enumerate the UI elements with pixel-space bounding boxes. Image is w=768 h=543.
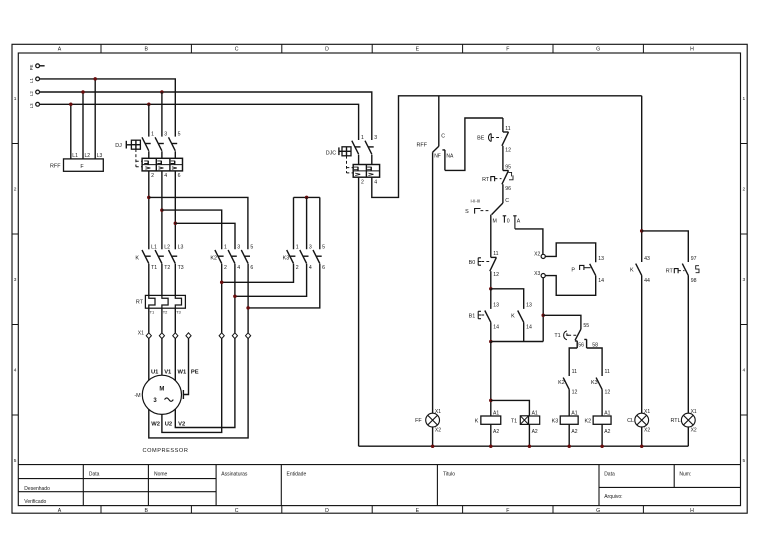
svg-text:DJC: DJC bbox=[326, 150, 337, 156]
svg-text:L2: L2 bbox=[29, 91, 34, 96]
svg-text:1: 1 bbox=[151, 131, 154, 137]
aux contact K 13-14 (seal-in) bbox=[518, 311, 524, 323]
contactor K pole L3-T3 bbox=[169, 250, 176, 264]
pushbutton B0 actuator bbox=[478, 258, 481, 265]
svg-text:C: C bbox=[235, 508, 239, 514]
svg-text:1: 1 bbox=[742, 96, 745, 102]
wire X1 to motor V1 bbox=[161, 339, 163, 376]
wire DJC pole4 riser to control top rail bbox=[372, 96, 642, 198]
wire phase rail 3 bbox=[40, 104, 359, 140]
svg-text:B: B bbox=[144, 508, 148, 514]
svg-text:X1: X1 bbox=[644, 409, 650, 415]
wire RT98 to RTL lamp bbox=[687, 275, 689, 413]
contactor K pole L1-T1 bbox=[142, 250, 149, 264]
svg-text:Nome: Nome bbox=[154, 472, 168, 478]
svg-text:K2: K2 bbox=[558, 380, 565, 386]
pushbutton B1 NO contact 13-14 bbox=[485, 311, 491, 323]
wire fuse drop L1 bbox=[70, 104, 72, 159]
junction rail3-L1 bbox=[69, 103, 73, 107]
terminal PE (incoming earth) bbox=[36, 64, 40, 68]
coil K2 bbox=[593, 416, 611, 424]
pushbutton B0 NC contact 11-12 bbox=[491, 256, 497, 258]
terminal L3 (incoming phase) bbox=[36, 102, 40, 106]
wire RT outputs to X1 terminals bbox=[149, 308, 176, 333]
svg-text:K3: K3 bbox=[283, 256, 290, 262]
svg-text:T3: T3 bbox=[178, 265, 184, 271]
wire branch to K2 pole 5 bbox=[149, 197, 248, 249]
breaker DJ trip linkage (dashed) bbox=[135, 149, 137, 167]
svg-text:Arquivo:: Arquivo: bbox=[604, 494, 622, 500]
svg-text:RT: RT bbox=[136, 300, 144, 306]
svg-text:B0: B0 bbox=[469, 260, 476, 266]
frame zone column dividers (top strip) bbox=[101, 44, 643, 53]
wire top rail down right branch bbox=[641, 96, 643, 262]
junction node DJ pole3 branch bbox=[174, 222, 178, 226]
terminal X1 point 3 bbox=[173, 333, 178, 339]
pushbutton B1 actuator bbox=[478, 311, 481, 318]
svg-text:Data: Data bbox=[604, 472, 615, 478]
svg-text:A1: A1 bbox=[571, 410, 577, 416]
svg-text:X1: X1 bbox=[138, 331, 144, 337]
svg-text:1: 1 bbox=[14, 96, 17, 102]
svg-text:A2: A2 bbox=[532, 429, 538, 435]
svg-text:H: H bbox=[690, 47, 694, 53]
svg-text:FF: FF bbox=[415, 418, 422, 424]
svg-text:A1: A1 bbox=[604, 410, 610, 416]
svg-text:L1: L1 bbox=[151, 245, 157, 251]
drawing frame inner border bbox=[18, 53, 740, 506]
svg-text:1: 1 bbox=[361, 135, 364, 141]
svg-text:12: 12 bbox=[572, 389, 578, 395]
breaker DJ trip elements pole 1 bbox=[144, 161, 148, 164]
svg-text:X1: X1 bbox=[691, 409, 697, 415]
svg-text:1: 1 bbox=[296, 245, 299, 251]
svg-text:NF: NF bbox=[434, 154, 441, 160]
terminal X3 bbox=[541, 274, 545, 278]
wire B0 to start branch bbox=[490, 271, 492, 289]
wire X3 down to manual branch junction bbox=[542, 278, 544, 342]
wire DJ pole2 to contactor K pole2 bbox=[161, 171, 163, 249]
svg-text:12: 12 bbox=[605, 389, 611, 395]
junction rail2-L2 bbox=[81, 90, 85, 94]
svg-text:4: 4 bbox=[14, 368, 17, 374]
frame zone row dividers (left+right strips) bbox=[12, 144, 747, 416]
contactor K2 pole 5-6 bbox=[241, 250, 248, 264]
junction node K2-K3 phase b bbox=[233, 295, 237, 299]
svg-text:X1: X1 bbox=[435, 409, 441, 415]
junction T1-bus bbox=[528, 444, 532, 448]
svg-text:Desenhado: Desenhado bbox=[24, 486, 50, 492]
wire branch to K aux 13 bbox=[491, 289, 524, 309]
pushbutton BE mushroom actuator bbox=[488, 134, 491, 142]
junction node hold branch bottom bbox=[489, 340, 493, 344]
thermal relay RT NC contact 95-96 bbox=[503, 170, 509, 172]
wire DJ pole1 to contactor K pole1 bbox=[148, 171, 150, 249]
svg-text:M: M bbox=[493, 218, 497, 224]
wire hold junction to X3 column bbox=[491, 341, 543, 343]
svg-text:12: 12 bbox=[505, 148, 511, 154]
svg-text:COMPRESSOR: COMPRESSOR bbox=[143, 448, 189, 454]
terminal X1 point 6 bbox=[232, 333, 237, 339]
svg-text:T2: T2 bbox=[164, 265, 170, 271]
breaker DJ trip elements pole 3 bbox=[171, 161, 175, 164]
svg-text:K3: K3 bbox=[591, 380, 598, 386]
svg-text:A: A bbox=[58, 508, 62, 514]
terminal X1 point 5 bbox=[219, 333, 224, 339]
wire X1 to motor W1 bbox=[174, 339, 176, 381]
pushbutton BE NC contact 11-12 bbox=[503, 131, 509, 133]
svg-text:T1: T1 bbox=[151, 265, 157, 271]
junction K3-bus bbox=[567, 444, 571, 448]
svg-text:2: 2 bbox=[14, 187, 17, 193]
svg-text:6: 6 bbox=[250, 265, 253, 271]
wire control bottom bus bbox=[359, 445, 689, 447]
svg-text:14: 14 bbox=[598, 278, 604, 284]
contactor K3 pole 3-4 bbox=[300, 250, 307, 264]
svg-text:A2: A2 bbox=[571, 429, 577, 435]
svg-text:6: 6 bbox=[178, 173, 181, 179]
svg-text:X2: X2 bbox=[534, 252, 540, 258]
svg-text:L3: L3 bbox=[178, 245, 184, 251]
svg-text:Entidade: Entidade bbox=[287, 472, 307, 478]
svg-text:D: D bbox=[325, 47, 329, 53]
wire motor W2 link bbox=[149, 339, 248, 438]
svg-text:C: C bbox=[505, 198, 509, 204]
wire motor V2 link bbox=[175, 339, 235, 428]
thermal relay RT heater 3 bbox=[175, 295, 181, 308]
wire B0 to B1 bbox=[490, 289, 492, 309]
wire fuse drop L2 bbox=[82, 92, 84, 159]
svg-text:M: M bbox=[159, 386, 164, 392]
junction rail1-L3 bbox=[93, 77, 97, 81]
RT 97-98 thermal actuator bbox=[674, 269, 678, 274]
svg-text:D: D bbox=[325, 508, 329, 514]
pressure switch P NO contact 13-14 bbox=[590, 264, 596, 276]
svg-text:L1: L1 bbox=[29, 78, 34, 83]
coil K3 bbox=[560, 416, 578, 424]
svg-text:4: 4 bbox=[374, 179, 377, 185]
junction node K3 bus bbox=[305, 196, 309, 200]
wire down to coil K bbox=[490, 342, 492, 417]
junction K-bus bbox=[489, 444, 493, 448]
svg-text:3: 3 bbox=[374, 135, 377, 141]
timer T1 actuator (clock) bbox=[564, 331, 569, 340]
terminal X1 point 7 bbox=[246, 333, 251, 339]
svg-text:RT: RT bbox=[666, 268, 674, 274]
selector switch S blade bbox=[492, 203, 503, 215]
fuse monitor RFF changeover common feed bbox=[438, 96, 440, 147]
wire K3 contact to coil K2 bbox=[601, 389, 603, 416]
svg-text:X2: X2 bbox=[435, 428, 441, 434]
svg-text:C: C bbox=[235, 47, 239, 53]
svg-text:K: K bbox=[511, 313, 515, 319]
wire RTL lamp to bus bbox=[687, 427, 689, 446]
svg-text:B1: B1 bbox=[469, 313, 476, 319]
svg-text:Data: Data bbox=[89, 472, 100, 478]
wire PE stub bbox=[40, 65, 45, 67]
wire branch to coil T1 bbox=[491, 400, 530, 416]
svg-text:X2: X2 bbox=[691, 428, 697, 434]
wire fuse drop L3 bbox=[94, 79, 96, 159]
svg-text:V1: V1 bbox=[164, 369, 172, 375]
wire K3 pole feeds bbox=[294, 197, 320, 249]
svg-text:Titulo: Titulo bbox=[443, 472, 455, 478]
wire K3 pole3 to K2 output bbox=[248, 264, 320, 308]
wire selector M down to B0 bbox=[490, 215, 492, 258]
motor AC sine symbol bbox=[165, 398, 174, 401]
svg-text:K: K bbox=[475, 419, 479, 425]
terminal L2 (incoming phase) bbox=[36, 90, 40, 94]
svg-text:2: 2 bbox=[296, 265, 299, 271]
svg-text:Num:: Num: bbox=[679, 472, 691, 478]
svg-text:4: 4 bbox=[164, 173, 167, 179]
wire X2 to pressure switch P bbox=[545, 243, 595, 262]
wire CL lamp to bus bbox=[641, 427, 643, 446]
svg-text:W1: W1 bbox=[178, 369, 187, 375]
svg-text:3: 3 bbox=[309, 245, 312, 251]
svg-text:97: 97 bbox=[691, 256, 697, 262]
wire coil T1 to bus bbox=[528, 424, 530, 446]
wire coil K3 to bus bbox=[568, 424, 570, 446]
svg-text:-M: -M bbox=[134, 393, 141, 399]
svg-text:13: 13 bbox=[598, 256, 604, 262]
svg-text:6: 6 bbox=[322, 265, 325, 271]
junction FF-bus bbox=[431, 444, 435, 448]
svg-text:13: 13 bbox=[493, 302, 499, 308]
wire phase rail 1 bbox=[40, 79, 176, 137]
frame zone column dividers (bottom strip) bbox=[101, 506, 643, 514]
svg-text:3: 3 bbox=[237, 245, 240, 251]
timer coil T1 bbox=[520, 416, 528, 425]
svg-text:14: 14 bbox=[493, 325, 499, 331]
wire K aux 14 down bbox=[523, 322, 525, 341]
RT contact trip hook bbox=[509, 172, 512, 176]
thermal relay RT box bbox=[145, 295, 185, 308]
svg-text:5: 5 bbox=[14, 458, 17, 464]
svg-text:U1: U1 bbox=[151, 369, 159, 375]
wire DJ pole2 feed bbox=[161, 92, 163, 137]
wire RFF NF down to FF lamp bbox=[432, 152, 434, 413]
timer T1 changeover blade bbox=[575, 329, 581, 340]
svg-text:RT: RT bbox=[482, 177, 490, 183]
selector S position 0 terminal bbox=[503, 216, 507, 223]
wire X1 to motor U1 bbox=[148, 339, 150, 381]
svg-text:K: K bbox=[135, 256, 139, 262]
wire P to terminal X3 bbox=[545, 276, 595, 296]
wire coil K to bus bbox=[490, 424, 492, 446]
svg-text:K3: K3 bbox=[552, 418, 559, 424]
thermal relay RT contact 97-98 bbox=[682, 264, 688, 276]
svg-text:K2: K2 bbox=[585, 418, 592, 424]
breaker DJ trip elements pole 2 bbox=[157, 161, 161, 164]
RT contact thermal actuator bbox=[491, 177, 495, 182]
wire FF lamp to bus bbox=[432, 427, 434, 446]
terminal X2 bbox=[541, 254, 545, 258]
motor M (compressor) circle bbox=[142, 375, 181, 414]
svg-text:B: B bbox=[144, 47, 148, 53]
wire DJC pole2 to control bottom bus bbox=[358, 177, 360, 446]
svg-text:95: 95 bbox=[505, 164, 511, 170]
breaker DJ pole 5-6 contact bbox=[169, 137, 176, 151]
wire K3 pole2 to K2 output bbox=[235, 264, 307, 297]
svg-text:BE: BE bbox=[477, 135, 485, 141]
wire BE to RT contact bbox=[502, 146, 504, 171]
svg-text:T1: T1 bbox=[150, 310, 155, 315]
aux contact K3 blade bbox=[596, 378, 602, 390]
junction CL-bus bbox=[640, 444, 644, 448]
title block grid bbox=[18, 465, 740, 506]
wire T1-56 to contact K2 bbox=[569, 348, 577, 376]
wire K3 top bus bbox=[294, 196, 320, 198]
thermal relay RT heater 1 bbox=[149, 295, 155, 308]
breaker DJC trip elements pole 2 bbox=[367, 167, 371, 170]
svg-text:4: 4 bbox=[742, 368, 745, 374]
contactor K3 pole 1-2 bbox=[287, 250, 294, 264]
svg-text:2: 2 bbox=[224, 265, 227, 271]
svg-text:E: E bbox=[416, 508, 420, 514]
wire K3 pole1 to K2 output bbox=[222, 264, 294, 283]
thermal relay RT heater 2 bbox=[162, 295, 168, 308]
wire RFF NA to BE bbox=[445, 118, 503, 170]
svg-text:P: P bbox=[571, 268, 575, 274]
junction node DJ pole2 branch bbox=[160, 208, 164, 212]
fuse monitor RFF changeover blade bbox=[433, 146, 439, 152]
svg-text:0: 0 bbox=[507, 218, 510, 224]
wire T1-58 to contact K3 bbox=[587, 348, 603, 376]
svg-text:RFF: RFF bbox=[417, 143, 428, 149]
svg-text:43: 43 bbox=[644, 256, 650, 262]
svg-text:3: 3 bbox=[742, 277, 745, 283]
wire K2 poles down to X1 terminals bbox=[222, 264, 248, 333]
breaker DJ trip unit box bbox=[142, 158, 182, 171]
svg-text:A1: A1 bbox=[493, 410, 499, 416]
timer T1 56 terminal bbox=[575, 341, 577, 348]
svg-text:K2: K2 bbox=[210, 256, 217, 262]
wire branch to RT 97 bbox=[642, 231, 689, 262]
svg-text:H: H bbox=[690, 508, 694, 514]
svg-text:1: 1 bbox=[224, 245, 227, 251]
breaker DJC trip elements pole 1 bbox=[354, 167, 358, 170]
wire DJC contacts to trip box bbox=[359, 155, 372, 165]
breaker DJ pole 1-2 contact bbox=[142, 137, 149, 151]
svg-text:NA: NA bbox=[446, 154, 454, 160]
terminal L1 (incoming phase) bbox=[36, 77, 40, 81]
wire branch to K2 pole 3 bbox=[175, 223, 235, 249]
svg-text:11: 11 bbox=[572, 369, 577, 375]
junction node K2-K3 phase a bbox=[220, 281, 224, 285]
svg-text:W2: W2 bbox=[151, 422, 160, 428]
wire RT 96 to selector S bbox=[502, 184, 504, 203]
wire coil K2 to bus bbox=[601, 424, 603, 446]
svg-text:3: 3 bbox=[14, 277, 17, 283]
svg-text:DJ: DJ bbox=[115, 143, 122, 149]
junction node DJ pole1 branch bbox=[147, 196, 151, 200]
svg-text:CL: CL bbox=[627, 418, 634, 424]
svg-text:5: 5 bbox=[322, 245, 325, 251]
svg-text:T3: T3 bbox=[176, 310, 181, 315]
fuse block RFF (F) bbox=[64, 159, 104, 171]
svg-text:T1: T1 bbox=[511, 418, 517, 424]
contactor K3 pole 5-6 bbox=[313, 250, 320, 264]
svg-text:I-II-III: I-II-III bbox=[471, 199, 481, 204]
svg-text:G: G bbox=[596, 47, 600, 53]
contactor K pole L2-T2 bbox=[155, 250, 162, 264]
terminal X1 point 4 bbox=[186, 333, 191, 339]
svg-text:RTL: RTL bbox=[671, 418, 681, 424]
selector switch S actuator bbox=[475, 209, 481, 214]
aux contact K2 blade bbox=[563, 378, 569, 390]
svg-text:4: 4 bbox=[237, 265, 240, 271]
breaker DJC pole 3-4 contact bbox=[365, 141, 372, 155]
junction node coil K / timer T1 feed bbox=[489, 399, 493, 403]
svg-text:U2: U2 bbox=[165, 422, 172, 428]
contactor K2 pole 3-4 bbox=[228, 250, 235, 264]
wire phase rail 2 bbox=[40, 92, 372, 140]
svg-text:L3: L3 bbox=[29, 103, 34, 108]
wire selector A to terminal X2 bbox=[515, 229, 543, 254]
wire junction to timer T1 common bbox=[543, 315, 581, 329]
junction rail2-DJ pole2 bbox=[160, 90, 164, 94]
wire K2 contact to coil K3 bbox=[568, 389, 570, 416]
svg-text:E: E bbox=[416, 47, 420, 53]
selector S position A terminal bbox=[513, 216, 516, 229]
breaker DJC trip unit box bbox=[353, 165, 379, 178]
junction right branch split bbox=[640, 229, 644, 233]
svg-text:T2: T2 bbox=[163, 310, 168, 315]
svg-text:F: F bbox=[506, 47, 509, 53]
svg-text:56: 56 bbox=[578, 342, 584, 348]
svg-text:T1: T1 bbox=[554, 333, 560, 339]
junction node timer branch bbox=[541, 314, 545, 318]
wire B1 to hold junction bbox=[490, 322, 492, 341]
breaker DJC pole 1-2 contact bbox=[352, 141, 359, 155]
svg-text:G: G bbox=[596, 508, 600, 514]
junction K2-bus bbox=[600, 444, 604, 448]
svg-text:X3: X3 bbox=[534, 271, 540, 277]
wire DJ contacts to trip box bbox=[149, 151, 176, 158]
svg-text:98: 98 bbox=[691, 278, 697, 284]
breaker DJC trip linkage (dashed) bbox=[346, 156, 348, 173]
svg-text:2: 2 bbox=[742, 187, 745, 193]
junction node K2-K3 phase c bbox=[246, 306, 250, 310]
svg-text:11: 11 bbox=[493, 251, 498, 257]
svg-text:C: C bbox=[441, 133, 445, 139]
svg-text:Assinaturas: Assinaturas bbox=[221, 472, 248, 478]
svg-text:11: 11 bbox=[505, 126, 510, 132]
svg-text:4: 4 bbox=[309, 265, 312, 271]
terminal X1 point 2 bbox=[159, 333, 164, 339]
breaker DJ pole 3-4 contact bbox=[155, 137, 162, 151]
svg-text:5: 5 bbox=[178, 131, 181, 137]
svg-text:PE: PE bbox=[191, 369, 199, 375]
lamp CL bbox=[635, 413, 649, 427]
svg-text:K: K bbox=[630, 268, 634, 274]
svg-text:2: 2 bbox=[151, 173, 154, 179]
svg-text:12: 12 bbox=[493, 272, 499, 278]
timer T1 58 terminal bbox=[584, 339, 586, 348]
motor PE bar bbox=[182, 390, 184, 399]
svg-text:5: 5 bbox=[250, 245, 253, 251]
wire X1 to motor PE bbox=[183, 339, 188, 395]
RT 97-98 hook symbol bbox=[696, 266, 699, 273]
wire K poles to RT relay bbox=[149, 264, 176, 296]
svg-text:A2: A2 bbox=[604, 429, 610, 435]
wire DJ pole1 feed bbox=[148, 104, 150, 136]
svg-text:44: 44 bbox=[644, 278, 650, 284]
junction rail3-DJ pole1 bbox=[147, 103, 151, 107]
svg-text:55: 55 bbox=[583, 323, 589, 329]
svg-text:2: 2 bbox=[361, 179, 364, 185]
